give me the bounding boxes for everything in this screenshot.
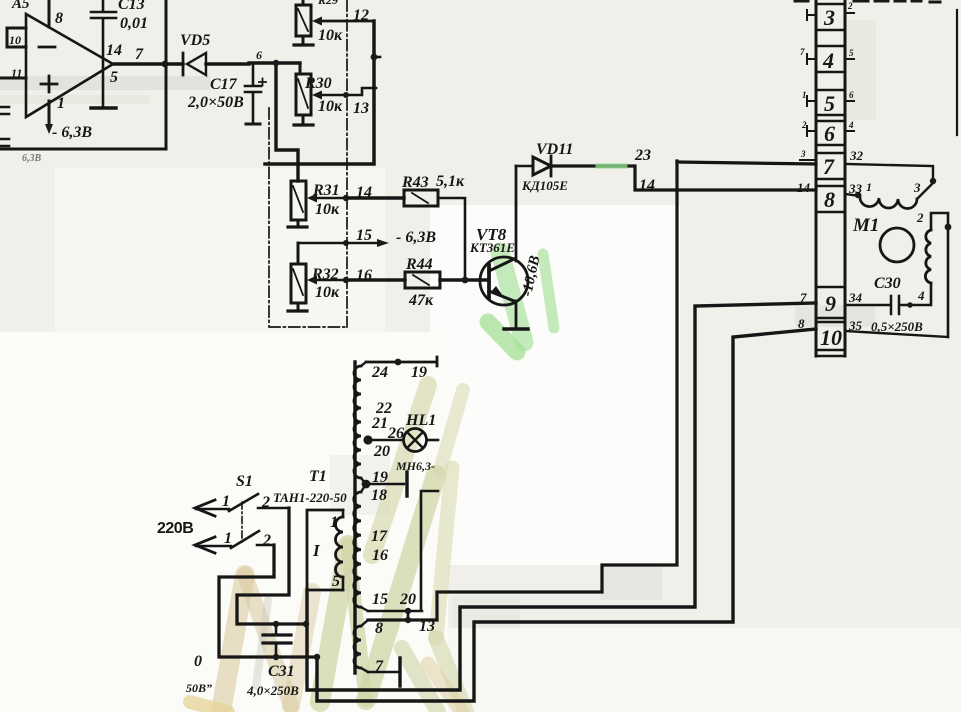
svg-text:1: 1 [866,180,872,194]
svg-text:35: 35 [848,318,863,333]
svg-text:2: 2 [261,494,270,511]
svg-text:1: 1 [224,530,232,547]
svg-text:16: 16 [356,267,372,284]
svg-text:15: 15 [356,227,372,244]
svg-text:6,3В: 6,3В [22,153,42,164]
svg-text:6: 6 [824,121,835,146]
svg-text:7: 7 [823,154,835,179]
svg-text:16: 16 [372,547,388,564]
svg-text:7: 7 [375,658,384,675]
svg-text:КТ361Е: КТ361Е [469,240,515,255]
svg-text:8: 8 [824,187,835,212]
svg-text:8: 8 [798,316,805,331]
svg-text:7: 7 [800,47,805,57]
svg-text:- 6,3В: - 6,3В [52,124,92,141]
svg-text:R30: R30 [304,75,332,92]
svg-text:18: 18 [371,487,387,504]
svg-text:КД105Е: КД105Е [521,178,568,193]
svg-text:14: 14 [797,180,811,195]
svg-text:4: 4 [848,120,854,130]
svg-text:5: 5 [849,48,854,58]
svg-text:2: 2 [262,532,271,549]
svg-text:13: 13 [353,100,369,117]
svg-text:11: 11 [11,66,22,80]
svg-text:3: 3 [913,180,921,195]
svg-text:10к: 10к [318,98,343,115]
svg-text:5,1к: 5,1к [436,173,465,190]
svg-text:1: 1 [57,95,65,112]
svg-text:R44: R44 [405,256,433,273]
svg-text:13: 13 [419,618,435,635]
svg-text:19: 19 [372,469,388,486]
svg-text:8: 8 [375,620,383,637]
svg-text:0,01: 0,01 [120,15,148,32]
svg-text:33: 33 [848,181,863,196]
svg-text:2: 2 [801,120,807,130]
svg-text:5: 5 [110,69,118,86]
svg-text:47к: 47к [408,292,434,309]
svg-text:14: 14 [106,42,122,59]
svg-text:6: 6 [256,48,262,62]
svg-text:А5: А5 [11,0,30,12]
svg-text:С31: С31 [268,663,295,680]
svg-text:С17: С17 [210,76,238,93]
svg-text:3: 3 [800,149,806,159]
svg-text:15: 15 [372,591,388,608]
svg-text:24: 24 [371,364,388,381]
svg-text:0: 0 [194,653,202,670]
svg-text:7: 7 [800,290,807,305]
svg-text:17: 17 [371,528,388,545]
svg-text:10к: 10к [315,201,340,218]
svg-text:0,5×250В: 0,5×250В [871,319,923,334]
svg-text:9: 9 [825,291,836,316]
svg-text:220В: 220В [157,520,193,537]
svg-text:- 6,3В: - 6,3В [396,229,436,246]
svg-text:МН6,3-: МН6,3- [395,459,435,473]
svg-text:14: 14 [356,184,372,201]
svg-text:32: 32 [849,148,864,163]
svg-text:ТАН1-220-50: ТАН1-220-50 [273,490,347,505]
svg-text:VD11: VD11 [536,141,573,158]
svg-text:R43: R43 [401,174,429,191]
svg-text:1: 1 [222,493,230,510]
svg-text:4: 4 [917,288,925,303]
svg-text:R31: R31 [312,182,340,199]
svg-text:2: 2 [847,1,853,11]
svg-text:14: 14 [639,177,655,194]
svg-text:21: 21 [371,415,388,432]
svg-text:С30: С30 [874,275,901,292]
svg-text:8: 8 [55,10,63,27]
svg-text:S1: S1 [236,473,253,490]
svg-text:5: 5 [824,91,835,116]
svg-text:20: 20 [399,591,416,608]
svg-text:1: 1 [330,514,338,531]
svg-text:23: 23 [634,147,651,164]
svg-text:С13: С13 [118,0,145,13]
svg-text:20: 20 [373,443,390,460]
svg-text:HL1: HL1 [405,412,436,429]
svg-text:2: 2 [916,210,924,225]
svg-text:1: 1 [802,90,807,100]
svg-text:10к: 10к [318,27,343,44]
svg-text:5: 5 [332,573,340,590]
svg-text:10: 10 [9,33,21,47]
svg-text:10: 10 [820,325,842,350]
svg-text:50В”: 50В” [186,681,212,695]
svg-text:М1: М1 [852,215,879,236]
svg-text:4,0×250В: 4,0×250В [246,683,299,698]
svg-text:2,0×50В: 2,0×50В [187,94,244,111]
svg-text:Т1: Т1 [309,468,327,485]
svg-text:VD5: VD5 [180,32,210,49]
svg-text:26: 26 [387,425,404,442]
svg-text:R32: R32 [311,266,339,283]
svg-text:34: 34 [848,290,863,305]
svg-text:12: 12 [353,7,369,24]
svg-text:R29: R29 [317,0,338,7]
svg-text:10к: 10к [315,284,340,301]
svg-text:6: 6 [849,90,854,100]
svg-text:3: 3 [823,5,835,30]
svg-text:7: 7 [135,46,144,63]
svg-text:4: 4 [822,48,834,73]
svg-text:19: 19 [411,364,427,381]
